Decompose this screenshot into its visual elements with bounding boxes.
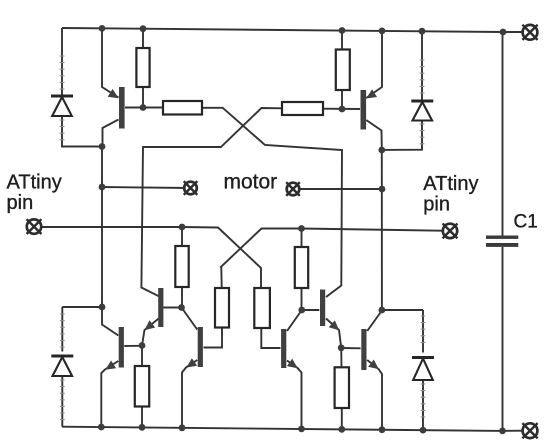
svg-text:C1: C1 bbox=[514, 212, 538, 233]
svg-text:ATtiny: ATtiny bbox=[423, 173, 478, 195]
svg-text:pin: pin bbox=[423, 193, 450, 215]
svg-text:ATtiny: ATtiny bbox=[7, 171, 62, 193]
svg-text:pin: pin bbox=[7, 192, 34, 214]
svg-text:motor: motor bbox=[224, 171, 278, 194]
